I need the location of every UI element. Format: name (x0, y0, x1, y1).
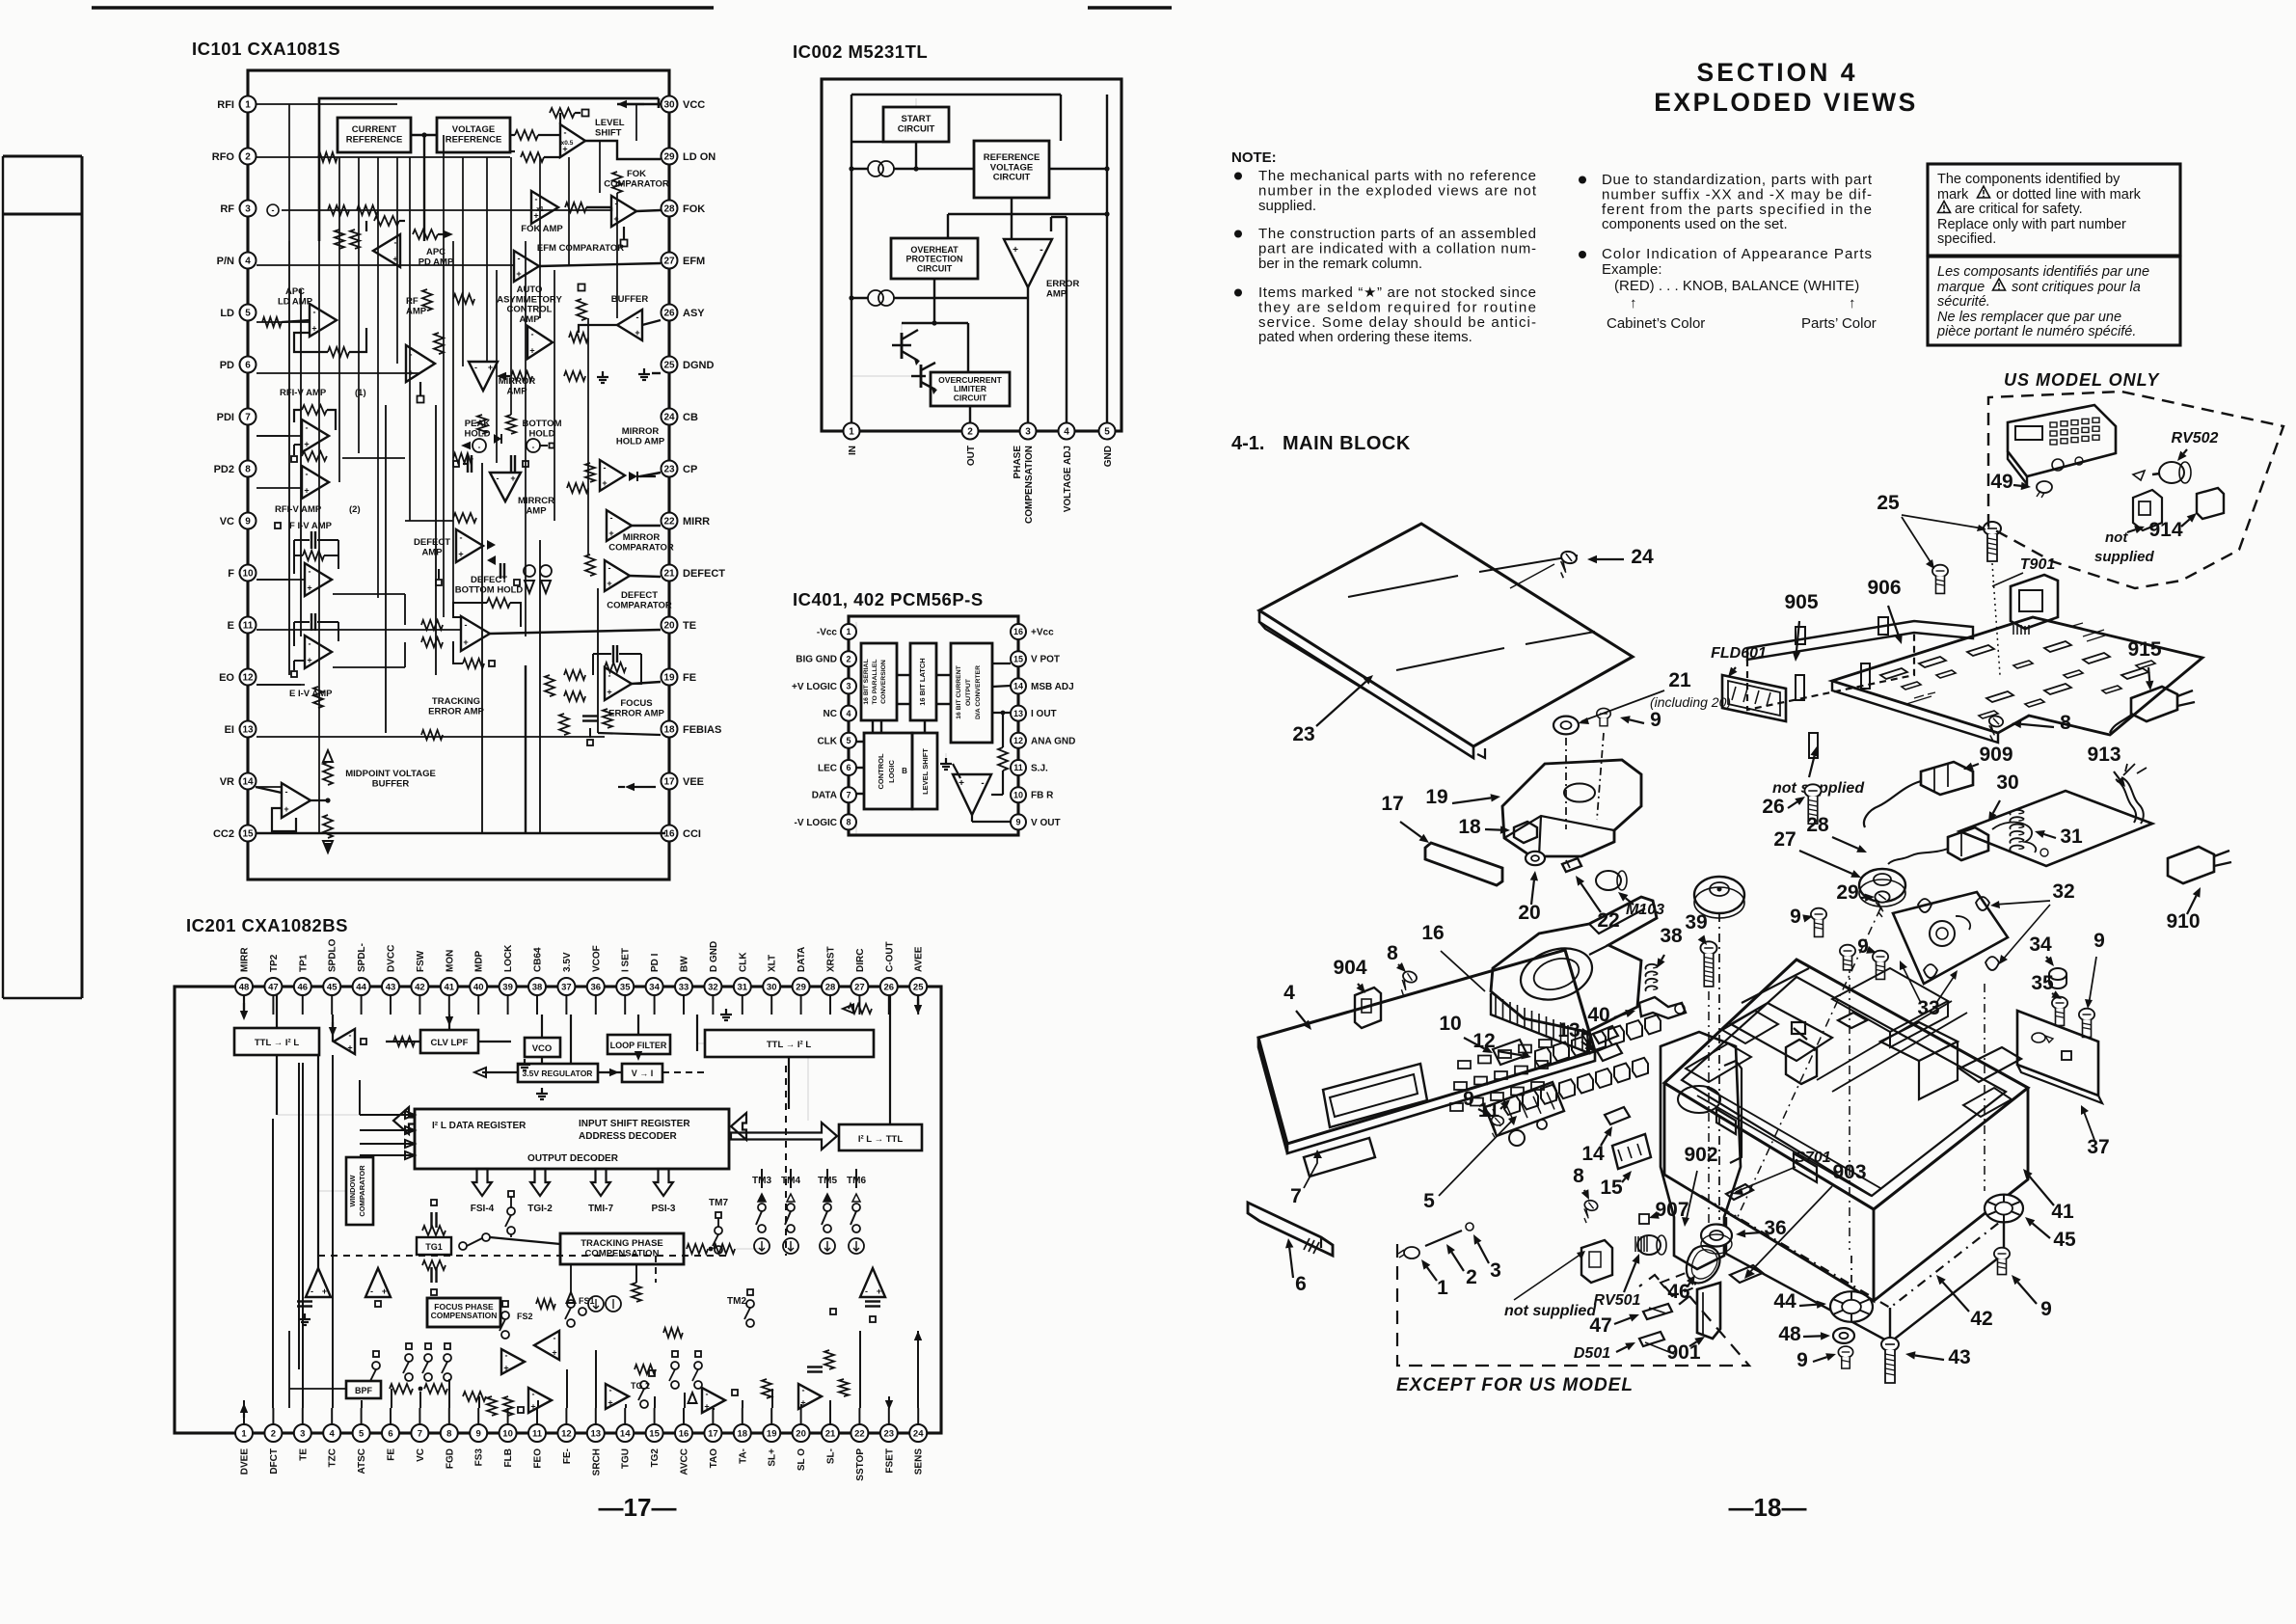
rfi-v amp1 terminal (294, 444, 302, 446)
window comp input amps (306, 1268, 331, 1297)
svg-text:25: 25 (913, 982, 924, 992)
pin 4 TZC (323, 1424, 340, 1442)
svg-text:9: 9 (476, 1428, 481, 1439)
tracking dashes (318, 1255, 729, 1257)
fok comp bottom terminal (623, 227, 625, 239)
dash line washer to bracket (1565, 738, 1567, 829)
svg-text:(RED) . . . KNOB, BALANCE (WHI: (RED) . . . KNOB, BALANCE (WHITE) (1614, 278, 1859, 294)
block I2L-TTL (839, 1124, 922, 1150)
pin 7 PDI (240, 409, 257, 425)
switch S701 part (1726, 1184, 1753, 1200)
svg-text:48: 48 (239, 982, 250, 992)
mirror hold amp op-amp (600, 460, 625, 491)
pin 29 DATA (793, 978, 810, 995)
pin 30 VCC (662, 96, 678, 113)
svg-text:5: 5 (359, 1428, 365, 1439)
TG1 network (417, 1237, 451, 1255)
svg-text:904: 904 (1333, 957, 1366, 979)
wire asy pin to buffer (642, 320, 661, 325)
pin 32 D GND (704, 978, 721, 995)
wire buffer to asym (579, 325, 617, 333)
svg-text:AMP: AMP (421, 547, 443, 557)
svg-text:LOCK: LOCK (503, 944, 514, 972)
defect amp res (453, 513, 476, 523)
panel display window (1323, 1064, 1427, 1127)
chassis pillar (1786, 1040, 1817, 1084)
wire te out (490, 630, 661, 634)
svg-text:5: 5 (1104, 427, 1110, 438)
pin 28 FOK (662, 201, 678, 217)
dashed sub box 46 (1661, 1273, 1697, 1296)
svg-text:11: 11 (243, 621, 254, 632)
switch 904 (1355, 988, 1381, 1028)
svg-text:+: + (602, 478, 607, 488)
f iv cap feedback (311, 531, 312, 549)
svg-text:F: F (228, 568, 234, 580)
svg-text:-: - (311, 1286, 313, 1296)
block REFERENCE VOLTAGE CIRCUIT (974, 141, 1049, 198)
svg-text:4: 4 (1064, 427, 1069, 438)
svg-text:8: 8 (1387, 942, 1398, 964)
svg-text:14: 14 (1013, 682, 1023, 691)
svg-text:34: 34 (2029, 934, 2052, 956)
svg-text:-: - (497, 474, 500, 483)
svg-text:SHIFT: SHIFT (595, 127, 622, 138)
bolt 29 (1875, 891, 1889, 917)
pin 12 EO (240, 669, 257, 686)
pin 15 CC2 (240, 826, 257, 842)
svg-text:EO: EO (219, 672, 234, 684)
svg-text:-: - (608, 563, 611, 573)
fluorescent display 905 (1747, 621, 1973, 660)
pin 36 VCOF (587, 978, 605, 995)
screw 9 near 21 (1597, 708, 1610, 725)
svg-text:The components identified: The components identified by (1937, 172, 2120, 187)
midpoint wires (311, 799, 328, 801)
screw 43 (1881, 1338, 1899, 1383)
svg-text:sont critiques pour la: sont critiques pour la (2012, 280, 2141, 295)
svg-text:LEVEL SHIFT: LEVEL SHIFT (921, 748, 930, 795)
extra clutter IC201 (672, 1351, 678, 1357)
svg-text:914: 914 (2148, 519, 2182, 541)
svg-text:WINDOW: WINDOW (348, 1175, 357, 1207)
screw 24 (1556, 550, 1579, 580)
svg-text:AMP: AMP (1046, 288, 1067, 299)
ERROR AMP op-amp (1004, 239, 1052, 287)
svg-text:901: 901 (1666, 1341, 1700, 1364)
svg-text:23: 23 (884, 1428, 895, 1439)
mirror comparator op-amp (607, 510, 632, 541)
svg-text:19: 19 (1425, 786, 1447, 808)
svg-text:6: 6 (245, 361, 251, 371)
lever 40 (1639, 997, 1686, 1018)
svg-text:12: 12 (561, 1428, 572, 1439)
screw 35 (2052, 997, 2067, 1026)
pin 5 LD (240, 305, 257, 321)
svg-text:27: 27 (1773, 828, 1796, 851)
svg-text:specified.: specified. (1937, 231, 1996, 247)
svg-text:17: 17 (1381, 793, 1403, 815)
IC201 interior wires (276, 995, 278, 1028)
IC101 inner box (319, 98, 659, 241)
svg-text:47: 47 (268, 982, 279, 992)
EFM comparator op-amp (514, 251, 539, 282)
block V-I (622, 1064, 662, 1082)
screw 26 (1804, 784, 1821, 824)
wire efm out to pin27 (539, 263, 661, 266)
svg-text:TP1: TP1 (298, 954, 309, 972)
block CURRENT REFERENCE (338, 118, 411, 152)
svg-text:EI: EI (225, 724, 234, 736)
pin 3 +V LOGIC (841, 678, 856, 693)
mech base 30 (1959, 791, 2152, 866)
svg-text:22: 22 (854, 1428, 865, 1439)
svg-text:26: 26 (663, 309, 675, 319)
resistor fok chain (612, 172, 622, 193)
svg-text:-: - (478, 443, 481, 451)
pin 39 LOCK (500, 978, 517, 995)
button row 12 (1535, 1047, 1551, 1067)
svg-text:V OUT: V OUT (1031, 818, 1061, 828)
asym resistor v (577, 299, 586, 320)
svg-text:+: + (307, 656, 311, 665)
pulley 27 (1859, 869, 1905, 902)
IC201 vertical wires top (243, 995, 245, 1015)
svg-text:FSET: FSET (884, 1448, 895, 1474)
pin 22 MIRR (662, 513, 678, 529)
pin 4 VOLTAGE ADJ (1059, 423, 1075, 440)
svg-text:mark: mark (1937, 187, 1969, 203)
sens avee arrows (917, 1340, 919, 1341)
svg-text:909: 909 (1979, 744, 2012, 766)
ei res (313, 687, 323, 708)
svg-text:ANA GND: ANA GND (1031, 736, 1075, 746)
svg-text:SPDLO: SPDLO (328, 938, 338, 972)
wire vout (971, 815, 973, 822)
pin 12 FE- (557, 1424, 575, 1442)
svg-text:5: 5 (846, 736, 851, 745)
svg-text:-: - (604, 463, 607, 473)
svg-text:-: - (460, 533, 463, 543)
svg-text:FEBIAS: FEBIAS (683, 724, 721, 736)
rfi-v amp1 feedback resistor (302, 405, 327, 415)
svg-text:D501: D501 (1574, 1345, 1610, 1362)
svg-text:-: - (564, 128, 567, 138)
pin 35 I SET (616, 978, 634, 995)
arrow into data register (393, 1107, 415, 1134)
svg-text:25: 25 (1877, 492, 1900, 514)
svg-text:40: 40 (473, 982, 484, 992)
svg-text:2: 2 (1466, 1266, 1477, 1288)
svg-text:DGND: DGND (683, 360, 714, 371)
svg-text:+: + (608, 1398, 612, 1408)
small part 10 (1493, 1040, 1527, 1065)
dash line pulley to 36 (1718, 913, 1720, 1220)
chassis inner walls (1682, 977, 2006, 1196)
svg-text:905: 905 (1784, 591, 1818, 613)
svg-text:11: 11 (1013, 763, 1023, 772)
pin 21 DEFECT (662, 565, 678, 582)
tray hatched edge (1491, 993, 1589, 1053)
bracket part 19 (1502, 760, 1641, 856)
resistor apc pd feedback (374, 216, 399, 226)
right edge amp (860, 1268, 885, 1297)
wires register to switches (761, 1169, 763, 1188)
svg-text:27: 27 (663, 257, 675, 267)
block 16bit latch (910, 643, 936, 720)
screw 9 motor b (1873, 951, 1888, 980)
plug 915 (2131, 687, 2177, 721)
svg-text:3: 3 (245, 204, 251, 215)
svg-text:46: 46 (298, 982, 309, 992)
svg-text:-: - (306, 470, 309, 479)
svg-text:TG1: TG1 (425, 1242, 443, 1252)
chassis front tabs (1716, 1109, 1736, 1134)
svg-text:FLD601: FLD601 (1711, 645, 1767, 662)
svg-text:-: - (802, 1386, 805, 1395)
svg-text:FE: FE (683, 672, 696, 684)
svg-text:+: + (959, 778, 964, 789)
svg-text:D/A CONVERTER: D/A CONVERTER (975, 665, 982, 719)
svg-text:Ne les remplacer que par: Ne les remplacer que par une (1937, 310, 2121, 325)
svg-text:Color Indication of Appeara: Color Indication of Appearance Parts (1602, 246, 1872, 262)
pin 7 DATA (841, 787, 856, 802)
pin 21 SL- (822, 1424, 839, 1442)
pin 14 VR (240, 773, 257, 790)
svg-text:6: 6 (388, 1428, 392, 1439)
svg-text:RV501: RV501 (1594, 1292, 1641, 1309)
current sources mid (588, 1296, 604, 1312)
svg-text:29: 29 (1836, 881, 1858, 904)
svg-text:VCC: VCC (683, 99, 705, 111)
svg-text:TTL → I² L: TTL → I² L (255, 1038, 299, 1048)
svg-text:7: 7 (245, 413, 251, 423)
pin 13 SRCH (587, 1424, 605, 1442)
TRACKING ERROR AMP op-amp (461, 616, 490, 651)
wire level shift out to pin29 (585, 141, 661, 159)
svg-text:CB: CB (683, 412, 698, 423)
pin 1 -Vcc (841, 624, 856, 639)
pin 8 PD2 (240, 461, 257, 477)
pin 10 FLB (500, 1424, 517, 1442)
svg-text:-: - (349, 1031, 352, 1041)
svg-text:15: 15 (1600, 1177, 1623, 1199)
pin 7 VC (411, 1424, 428, 1442)
panel knob (1509, 1130, 1525, 1146)
svg-text:C-OUT: C-OUT (884, 941, 895, 972)
svg-text:+V LOGIC: +V LOGIC (792, 682, 837, 692)
peak hold cap (467, 455, 469, 473)
wire fok amp to comparator (565, 203, 586, 212)
svg-text:32: 32 (708, 982, 718, 992)
svg-text:are critical for safety.: are critical for safety. (1955, 202, 2083, 217)
svg-text:FSI-4: FSI-4 (471, 1204, 495, 1214)
svg-text:40: 40 (1587, 1004, 1609, 1026)
door part 7 (1304, 1138, 1375, 1177)
svg-text:15: 15 (649, 1428, 660, 1439)
svg-text:-: - (865, 1286, 868, 1296)
svg-text:FS2: FS2 (517, 1312, 533, 1321)
svg-text:+: + (510, 474, 515, 483)
pin 4 P/N (240, 253, 257, 269)
defect bottom hold parts (500, 563, 501, 579)
svg-text:8: 8 (846, 818, 851, 827)
svg-text:17: 17 (708, 1428, 718, 1439)
svg-text:LD AMP: LD AMP (278, 296, 313, 307)
svg-text:SRCH: SRCH (591, 1448, 602, 1475)
part 34 (2049, 968, 2066, 980)
svg-text:CIRCUIT: CIRCUIT (917, 263, 953, 273)
midpoint res bottom (323, 815, 333, 838)
svg-text:8: 8 (2060, 712, 2071, 734)
pin 14 MSB ADJ (1011, 678, 1026, 693)
svg-text:LOGIC: LOGIC (887, 760, 896, 783)
svg-text:16 BIT LATCH: 16 BIT LATCH (918, 658, 927, 705)
svg-text:28: 28 (825, 982, 836, 992)
svg-text:+: + (463, 637, 468, 647)
svg-text:2: 2 (245, 152, 251, 163)
pin 2 RFO (240, 149, 257, 165)
svg-text:ber in the remark column.: ber in the remark column. (1258, 256, 1422, 272)
svg-text:29: 29 (663, 152, 675, 163)
svg-text:OUTPUT DECODER: OUTPUT DECODER (527, 1153, 619, 1164)
svg-text:TE: TE (298, 1448, 309, 1461)
svg-text:CCI: CCI (683, 828, 701, 840)
svg-text:↑: ↑ (1630, 295, 1637, 311)
svg-text:9: 9 (1463, 1088, 1474, 1110)
svg-text:8: 8 (245, 465, 251, 475)
f iv res feedback (303, 551, 324, 560)
pin 34 PD I (646, 978, 663, 995)
svg-text:34: 34 (649, 982, 660, 992)
svg-text:COMPARATOR: COMPARATOR (604, 178, 669, 189)
svg-text:PD I: PD I (650, 953, 661, 972)
pin 17 VEE (662, 773, 678, 790)
rfi-v amp2 feedback (302, 451, 327, 461)
svg-text:DIRC: DIRC (855, 949, 866, 972)
transistor Q2 (911, 375, 926, 377)
svg-text:9: 9 (2093, 930, 2105, 952)
svg-text:1: 1 (1437, 1277, 1448, 1299)
svg-text:3.5V: 3.5V (562, 952, 573, 972)
svg-text:+: + (607, 688, 611, 697)
svg-text:US MODEL ONLY: US MODEL ONLY (2004, 370, 2160, 390)
pin 11 E (240, 617, 257, 634)
dash-dot screw lines chassis (1849, 964, 1850, 1250)
svg-text:14: 14 (1581, 1143, 1605, 1165)
connector 909 (1921, 762, 1973, 795)
svg-text:4: 4 (245, 257, 251, 267)
svg-text:REFERENCE: REFERENCE (346, 134, 403, 145)
svg-text:16 BIT SERIAL: 16 BIT SERIAL (863, 659, 870, 704)
pin 27 DIRC (851, 978, 868, 995)
knob parts 1 2 3 (1404, 1247, 1419, 1259)
svg-text:DATA: DATA (812, 791, 837, 801)
pin 44 SPDL- (353, 978, 370, 995)
svg-text:HOLD AMP: HOLD AMP (616, 436, 665, 447)
wire pin30 vcc (617, 103, 661, 105)
svg-text:+: + (304, 440, 309, 449)
svg-text:45: 45 (2053, 1229, 2076, 1251)
pin 3 PHASE COMPENSATION (1020, 423, 1037, 440)
washer 21 (1553, 717, 1579, 735)
svg-text:9: 9 (1796, 1349, 1808, 1371)
wire current-voltage ref (411, 134, 437, 136)
nut 22 (1562, 858, 1581, 872)
connector 14 (1605, 1107, 1630, 1124)
svg-text:15: 15 (242, 829, 254, 840)
pin 16 AVCC (675, 1424, 692, 1442)
svg-text:REFERENCE: REFERENCE (446, 134, 502, 145)
lid reflection marks (1348, 576, 1458, 597)
focus res feedback (605, 663, 626, 672)
pin 30 XLT (763, 978, 780, 995)
svg-text:37: 37 (561, 982, 572, 992)
pin 1 IN (844, 423, 860, 440)
US MODEL ONLY inset dashed border (1988, 392, 2283, 588)
svg-text:BUFFER: BUFFER (372, 778, 410, 789)
pin 19 FE (662, 669, 678, 686)
part 49 screwcap (2037, 481, 2052, 493)
pcb 906 (1832, 617, 2202, 735)
pin 9 VC (240, 513, 257, 529)
pin 6 FE (382, 1424, 399, 1442)
transistor Q1 (892, 344, 911, 346)
svg-text:3: 3 (1490, 1259, 1501, 1282)
svg-text:CB64: CB64 (533, 947, 544, 972)
svg-text:-: - (465, 620, 468, 630)
block TRACKING PHASE COMPENSATION (560, 1233, 684, 1264)
svg-text:AMP: AMP (526, 505, 547, 516)
big pulley 38 39 area (1694, 877, 1744, 913)
screw 9 motor a (1811, 908, 1826, 937)
svg-text:BW: BW (680, 956, 690, 972)
svg-text:HOLD: HOLD (465, 428, 491, 439)
foot 45 (1985, 1195, 2023, 1223)
svg-text:MAIN BLOCK: MAIN BLOCK (1283, 433, 1411, 454)
svg-text:26: 26 (884, 982, 895, 992)
svg-text:-: - (370, 1286, 373, 1296)
pin 8 FGD (441, 1424, 458, 1442)
svg-text:10: 10 (242, 569, 254, 580)
svg-text:FE: FE (387, 1448, 397, 1461)
screw 25 long shaft dash (1992, 563, 2000, 675)
lower opamps (528, 1388, 552, 1413)
FOK comparator op-amp (611, 196, 636, 227)
svg-text:-: - (474, 363, 477, 372)
svg-text:+: + (347, 1043, 352, 1053)
svg-text:BIG GND: BIG GND (796, 655, 837, 665)
block TTL-I2L right (705, 1030, 874, 1057)
pin 3 minus mark (267, 204, 279, 216)
auto asym op-amp (527, 326, 553, 359)
svg-text:7: 7 (1290, 1185, 1302, 1207)
svg-text:+: + (552, 1348, 556, 1358)
extra wires IC101 (288, 241, 290, 675)
svg-text:PD: PD (220, 360, 234, 371)
pin 9 V OUT (1011, 814, 1026, 829)
svg-text:MSB ADJ: MSB ADJ (1031, 682, 1074, 692)
screws 25 (1984, 522, 2001, 561)
wire pin15 cc2 run (256, 832, 665, 834)
svg-text:18: 18 (1458, 816, 1481, 838)
svg-text:FSW: FSW (416, 950, 426, 972)
svg-text:9: 9 (1790, 906, 1801, 928)
svg-text:+: + (1013, 245, 1018, 256)
svg-text:CIRCUIT: CIRCUIT (954, 392, 987, 402)
pin 31 CLK (734, 978, 751, 995)
svg-text:902: 902 (1684, 1144, 1717, 1166)
